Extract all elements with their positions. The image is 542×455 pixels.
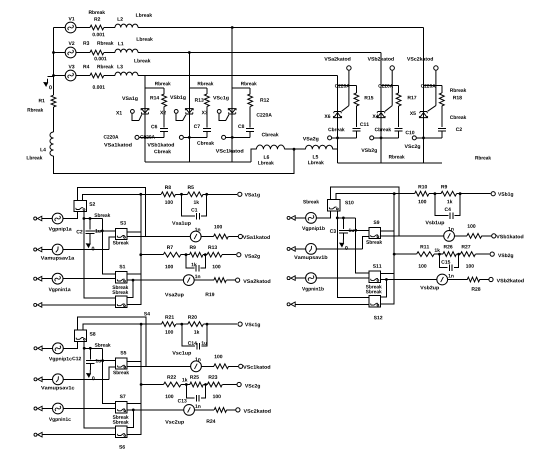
source Vgpnin1a bbox=[52, 273, 63, 284]
junction branch/row3 bbox=[139, 253, 142, 256]
label R4 bbox=[83, 65, 89, 68]
label VSa2g bbox=[245, 254, 260, 259]
left neutral rail vertical bbox=[53, 28, 55, 96]
wire bbox=[201, 365, 214, 367]
label C7 bbox=[194, 125, 200, 129]
value label Cbreak for C10 bbox=[375, 128, 391, 132]
label C3 bbox=[330, 229, 336, 233]
label Vgpnin1c bbox=[49, 417, 71, 422]
label R8 bbox=[165, 186, 171, 190]
input port b1 bbox=[287, 216, 290, 219]
feedback wire A bbox=[78, 317, 146, 366]
label L4 bbox=[40, 148, 45, 151]
resistor R12 bbox=[248, 94, 253, 107]
wire port4 to switch bbox=[42, 304, 116, 306]
label Vamupsav1a bbox=[41, 256, 74, 260]
label VSb2g bbox=[498, 253, 513, 258]
label VSc2katod bbox=[407, 57, 433, 61]
value label Lbreak for L3 bbox=[134, 59, 150, 63]
junction cap tap bbox=[89, 347, 92, 350]
wire bbox=[194, 409, 214, 411]
wire source to switch net bbox=[316, 248, 362, 250]
wire V1 to R2 bbox=[76, 27, 90, 29]
label VSc1g bbox=[245, 323, 260, 328]
ground 0 bbox=[89, 370, 91, 374]
wire switch out bbox=[84, 341, 102, 348]
capacitor C1 bbox=[197, 213, 200, 220]
branch vertical down to S4-style switch bbox=[127, 324, 141, 434]
ground 0 bbox=[47, 79, 49, 83]
inductor L4 bbox=[50, 132, 54, 156]
value label Rbreak for R18 bbox=[450, 88, 466, 92]
resistor R4 bbox=[90, 73, 104, 78]
input port a4 bbox=[34, 303, 37, 306]
resistor R15 bbox=[354, 93, 359, 106]
pulse source 1n (row2) bbox=[191, 361, 202, 372]
resistor R14 bbox=[162, 94, 167, 107]
value 1n bbox=[195, 275, 200, 278]
gate lead X2 bbox=[176, 113, 183, 120]
pulse source 1n (row4) bbox=[183, 275, 194, 286]
cathode terminal of X4 bbox=[390, 66, 394, 70]
output terminal VSa1katod bbox=[238, 234, 242, 238]
capacitor C6 bbox=[160, 129, 168, 132]
junction row4 tap bbox=[132, 409, 135, 412]
value 1k for R20 bbox=[194, 330, 199, 334]
value label Rbreak bbox=[475, 156, 491, 160]
wire source to switch ctrl bbox=[63, 341, 77, 348]
value 1k for R5 bbox=[194, 200, 199, 204]
label Vgpnin1b bbox=[302, 287, 324, 292]
junction rail/phase3 bbox=[52, 74, 55, 77]
value 100 for R7 bbox=[165, 265, 173, 269]
value label Cbreak for C11 bbox=[328, 128, 344, 132]
inductor L3 bbox=[115, 72, 138, 75]
label R26 bbox=[444, 245, 453, 249]
wire bbox=[355, 131, 357, 138]
label X4 bbox=[372, 115, 378, 118]
resistor R19 bbox=[214, 278, 226, 283]
branch vertical down to S4-style switch bbox=[127, 194, 141, 304]
switch S3 bbox=[115, 228, 127, 239]
wire to C14 bbox=[182, 324, 195, 346]
bus wire down to S1-style switch bbox=[103, 348, 116, 403]
junction bbox=[205, 193, 208, 196]
resistor R3 bbox=[90, 50, 104, 55]
label VSc2katod bbox=[244, 409, 271, 413]
voltage source V3 bbox=[65, 70, 76, 81]
wire to terminal bbox=[229, 365, 239, 367]
source Vgpnip1a bbox=[52, 213, 63, 224]
value label Lbreak for L1 bbox=[137, 37, 153, 41]
gate tap wire X5 bbox=[417, 137, 442, 139]
input port a1 bbox=[34, 217, 37, 220]
branch vertical down to S4-style switch bbox=[380, 194, 394, 304]
resistor R8 bbox=[161, 192, 175, 197]
pulse source 1n (row4) bbox=[437, 274, 448, 285]
junction phase/X2 leg bbox=[188, 51, 191, 54]
value label C220A over bar X4 bbox=[378, 84, 393, 88]
wire to terminal bbox=[475, 253, 489, 255]
wire bbox=[176, 193, 188, 195]
wire bbox=[448, 279, 468, 281]
bus wire down to S1-style switch bbox=[356, 218, 369, 273]
junction tap/X5 leg bbox=[422, 137, 425, 140]
value label Lbreak for L2 bbox=[136, 13, 152, 17]
gate tap wire X6 bbox=[332, 137, 356, 139]
gate lead X4 bbox=[385, 106, 392, 112]
junction tap/X4 leg bbox=[380, 137, 383, 140]
label C10 bbox=[406, 131, 415, 135]
wire bbox=[429, 193, 441, 195]
wire to terminal bbox=[222, 254, 236, 256]
resistor R23 bbox=[207, 382, 222, 387]
capacitor C12 bbox=[86, 361, 95, 364]
junction bus/cap node bbox=[101, 359, 104, 362]
switch S4 bbox=[115, 296, 127, 308]
cathode terminal of X3 bbox=[222, 135, 226, 139]
label R28 bbox=[472, 287, 481, 291]
input port b3 bbox=[287, 277, 290, 280]
value label Rbreak for R1 bbox=[28, 108, 44, 112]
value 1u for C12 bbox=[96, 359, 101, 362]
gate terminal of X4 bbox=[370, 136, 374, 140]
thyristor X2 bbox=[186, 109, 193, 113]
label R14 bbox=[150, 96, 159, 99]
label Vsb1up bbox=[425, 221, 444, 226]
wire bbox=[455, 194, 461, 216]
junction bbox=[438, 253, 441, 256]
value label Sbreak for S7 bbox=[113, 415, 129, 419]
junction bbox=[457, 253, 460, 256]
wire bbox=[454, 235, 467, 237]
snubber top bar X4 bbox=[381, 85, 399, 87]
label V2 bbox=[69, 42, 75, 45]
wire R2 to L2 bbox=[104, 27, 115, 29]
wire cap node to mid switch bbox=[94, 230, 115, 232]
input port c3 bbox=[34, 407, 37, 410]
wire bbox=[249, 88, 251, 94]
wire to C5 bbox=[186, 255, 194, 269]
value label Cbreak for C2 bbox=[450, 115, 466, 119]
junction bus/cap node bbox=[101, 230, 104, 233]
wire bbox=[201, 194, 207, 216]
wire bbox=[398, 86, 400, 93]
snubber top bar X2 bbox=[189, 87, 207, 89]
left group bottom rail bbox=[145, 161, 251, 163]
wire bbox=[163, 131, 165, 137]
output terminal VSb2g bbox=[490, 252, 494, 256]
wire V3 to R4 bbox=[76, 75, 90, 77]
value 1n bbox=[195, 404, 200, 407]
output terminal VSa1g bbox=[238, 192, 242, 196]
label C12 bbox=[72, 357, 81, 361]
switch S11 bbox=[369, 271, 381, 283]
value label Rbreak for R2 bbox=[89, 10, 105, 14]
wire to terminal bbox=[222, 384, 236, 386]
stub switch to branch bbox=[127, 273, 141, 275]
input port b4 bbox=[287, 303, 290, 306]
wire bbox=[163, 88, 165, 94]
value label Sbreak for S4 bbox=[112, 290, 128, 294]
resistor R7 bbox=[163, 252, 181, 257]
junction branch/row3 bbox=[140, 383, 143, 386]
label VSb1katod bbox=[496, 235, 523, 239]
label S5 bbox=[120, 351, 126, 355]
value 100 for R27 bbox=[466, 264, 474, 268]
output terminal VSc2katod bbox=[236, 408, 240, 412]
label VSc1g bbox=[213, 96, 229, 101]
value label Rbreak for R4 bbox=[97, 65, 113, 69]
junction bbox=[83, 347, 86, 350]
wire bbox=[181, 254, 190, 256]
label R18 bbox=[453, 96, 462, 100]
resistor (row2) bbox=[467, 234, 482, 239]
label V3 bbox=[69, 65, 75, 69]
value 1n bbox=[195, 358, 200, 361]
switch S9 bbox=[369, 228, 381, 239]
label VSa2katod bbox=[243, 279, 270, 283]
cathode terminal of X1 bbox=[135, 135, 139, 139]
gate terminal of X6 bbox=[328, 136, 332, 140]
source Vamupsav1b bbox=[306, 244, 317, 255]
wire source to switch ctrl bbox=[316, 211, 330, 218]
output terminal VSb1katod bbox=[492, 234, 496, 238]
voltage source V2 bbox=[65, 47, 76, 58]
label X2 bbox=[160, 111, 166, 114]
wire bbox=[441, 131, 443, 138]
junction row4 tap bbox=[385, 278, 388, 281]
value label Rbreak for R3 bbox=[97, 41, 113, 45]
resistor R5 bbox=[188, 192, 204, 197]
wire port to source bbox=[42, 249, 52, 251]
resistor R9 bbox=[190, 252, 204, 257]
value 1n bbox=[195, 228, 200, 231]
label R1 bbox=[39, 99, 45, 102]
row3 wire bbox=[394, 253, 416, 255]
wire R3 to L1 bbox=[104, 52, 115, 54]
junction bbox=[204, 383, 207, 386]
junction bus/cap node bbox=[354, 229, 357, 232]
stub switch to row2 bbox=[380, 235, 399, 237]
input port c1 bbox=[34, 347, 37, 350]
wire R1 to L4 bbox=[53, 107, 55, 132]
junction bbox=[206, 323, 209, 326]
label VSc1katod bbox=[216, 149, 244, 153]
row3 wire bbox=[141, 384, 163, 386]
cathode terminal of X6 bbox=[347, 66, 351, 70]
output terminal VSa2katod bbox=[236, 278, 240, 282]
row1 wire from switch bbox=[83, 194, 162, 200]
label VSa2g bbox=[303, 137, 319, 142]
value 1k for R9 bbox=[192, 263, 197, 267]
wire bbox=[441, 86, 443, 93]
value 0.001 for R4 bbox=[93, 85, 105, 89]
label R23 bbox=[209, 375, 218, 379]
wire bbox=[355, 86, 357, 93]
capacitor C8 bbox=[246, 129, 254, 132]
bottom neutral return rail bbox=[54, 149, 295, 173]
wire L5 to X6 leg bbox=[333, 149, 338, 150]
row1 wire from switch bbox=[336, 194, 415, 200]
label Vsa1up bbox=[172, 221, 191, 225]
value 1u for C2 bbox=[95, 229, 100, 232]
label R20 bbox=[188, 315, 197, 319]
label R21 bbox=[165, 315, 174, 318]
wire cap node to mid switch bbox=[95, 360, 116, 362]
label R19 bbox=[206, 293, 215, 297]
thyristor X6 bbox=[334, 113, 341, 118]
lead bbox=[89, 234, 91, 240]
wire source to switch net bbox=[63, 378, 109, 380]
label Vamupsav1c bbox=[41, 386, 74, 390]
cathode tap wire X1 bbox=[139, 136, 164, 138]
value 0.001 for R2 bbox=[92, 33, 104, 37]
wire source to switch ctrl bbox=[63, 212, 77, 219]
label VSc2g bbox=[405, 145, 421, 150]
label Vsb2up bbox=[420, 286, 439, 291]
value label Cbreak for C7 bbox=[197, 141, 214, 145]
wire port to source bbox=[42, 278, 52, 280]
wire mid switch to source row bbox=[362, 236, 369, 249]
junction load midpoint bbox=[293, 148, 296, 151]
output terminal VSa2g bbox=[237, 253, 241, 257]
value 1u for C14 bbox=[202, 341, 207, 344]
capacitor C14 bbox=[197, 343, 200, 350]
value label Sbreak for S8 bbox=[95, 343, 111, 347]
value label C220A over bar X5 bbox=[421, 84, 436, 88]
label L5 bbox=[313, 155, 318, 158]
cathode terminal lead X5 bbox=[435, 71, 437, 106]
snubber top bar X5 bbox=[424, 85, 442, 87]
input port a2 bbox=[34, 248, 37, 251]
wire to terminal bbox=[226, 279, 235, 281]
wire to ground bbox=[48, 76, 54, 78]
cathode terminal lead X4 bbox=[391, 71, 393, 106]
row2 wire bbox=[146, 236, 191, 238]
label S6 bbox=[119, 445, 125, 449]
label Vsa2up bbox=[165, 293, 184, 298]
wire bbox=[176, 323, 188, 325]
resistor R10 bbox=[415, 191, 429, 196]
resistor R22 bbox=[164, 382, 182, 387]
junction row4 tap bbox=[132, 279, 135, 282]
label VSc2g bbox=[245, 384, 260, 389]
lead C12 bbox=[89, 348, 91, 359]
wire to terminal bbox=[482, 235, 492, 237]
value 100 for R10 bbox=[418, 200, 426, 204]
row3 wire bbox=[141, 254, 163, 256]
source Vamupsav1a bbox=[52, 244, 63, 255]
value 1k for R9 bbox=[447, 200, 452, 204]
gate lead diagonal X2 bbox=[183, 115, 186, 121]
label Vgpnip1a bbox=[49, 227, 72, 232]
cathode terminal of X2 bbox=[179, 135, 183, 139]
snubber top bar X3 bbox=[232, 87, 250, 89]
value label C220A over bar X6 bbox=[335, 84, 350, 88]
switch S2 bbox=[74, 200, 86, 211]
value 100 bbox=[214, 225, 222, 229]
value 100 for R23 bbox=[213, 395, 221, 399]
wire bbox=[201, 385, 206, 399]
resistor R21 bbox=[162, 322, 176, 327]
wire R17 to C10 bbox=[398, 106, 400, 127]
junction bbox=[180, 323, 183, 326]
wire bbox=[434, 253, 443, 255]
junction branch/row3 bbox=[393, 253, 396, 256]
label R24 bbox=[207, 419, 216, 422]
switch S5 bbox=[116, 358, 128, 369]
gate tap wire X4 bbox=[374, 137, 399, 139]
label C11 bbox=[360, 123, 369, 127]
label R13 bbox=[195, 98, 204, 102]
junction rail/phase2 bbox=[52, 51, 55, 54]
label C6 bbox=[151, 125, 157, 129]
value label Lbreak for L5 bbox=[308, 161, 324, 165]
value label Rbreak for R13 bbox=[198, 82, 214, 86]
value label Rbreak for R12 bbox=[241, 82, 257, 86]
row1 wire from switch bbox=[83, 324, 162, 330]
value label C220A for C8 bbox=[257, 113, 272, 117]
value label Sbreak for S1 bbox=[112, 285, 128, 289]
wire to terminal bbox=[228, 236, 238, 238]
value 100 bbox=[215, 355, 223, 359]
label Vgpnip1c bbox=[49, 357, 72, 362]
source Vgpnin1b bbox=[306, 273, 317, 284]
wire source to switch bbox=[316, 277, 368, 279]
source Vgpnin1c bbox=[53, 403, 64, 414]
thyristor X4 bbox=[377, 113, 384, 118]
wire port to source bbox=[42, 408, 52, 410]
thyristor X3 bbox=[229, 109, 236, 113]
wire source to switch bbox=[63, 408, 115, 410]
label R22 bbox=[167, 375, 176, 378]
wire R13 to C7 bbox=[206, 107, 208, 128]
cathode tap wire X2 bbox=[184, 136, 207, 138]
label X1 bbox=[116, 111, 122, 114]
resistor R1 bbox=[51, 95, 56, 107]
wire bbox=[203, 384, 207, 386]
gate lead diagonal X3 bbox=[226, 115, 229, 121]
lead C2 bbox=[89, 219, 91, 230]
junction cap tap bbox=[342, 217, 345, 220]
output terminal VSc2g bbox=[237, 382, 241, 386]
leg wire for thyristor X1 bbox=[144, 76, 146, 163]
label R15 bbox=[365, 96, 374, 99]
stub switch to branch bbox=[380, 230, 394, 232]
switch S10 bbox=[327, 200, 339, 211]
voltage source V1 bbox=[65, 22, 76, 33]
label R11 bbox=[420, 245, 429, 248]
label S9 bbox=[374, 221, 380, 225]
label Vgpnip1b bbox=[302, 226, 325, 231]
wire port4 to switch bbox=[295, 303, 369, 305]
wire to C13 bbox=[186, 385, 194, 399]
junction bbox=[180, 193, 183, 196]
label R25 bbox=[190, 375, 199, 379]
row4 wire bbox=[127, 409, 184, 411]
switch S1 bbox=[115, 272, 127, 284]
gate terminal of X1 bbox=[131, 110, 135, 114]
gate lead diagonal X1 bbox=[139, 115, 142, 121]
label X3 bbox=[202, 111, 208, 115]
wire port to source bbox=[42, 378, 52, 380]
label R9 bbox=[441, 185, 447, 189]
lead C3 bbox=[342, 218, 344, 229]
junction row1/branch bbox=[393, 192, 396, 195]
stub switch to branch bbox=[127, 231, 141, 233]
label S3 bbox=[120, 221, 126, 225]
